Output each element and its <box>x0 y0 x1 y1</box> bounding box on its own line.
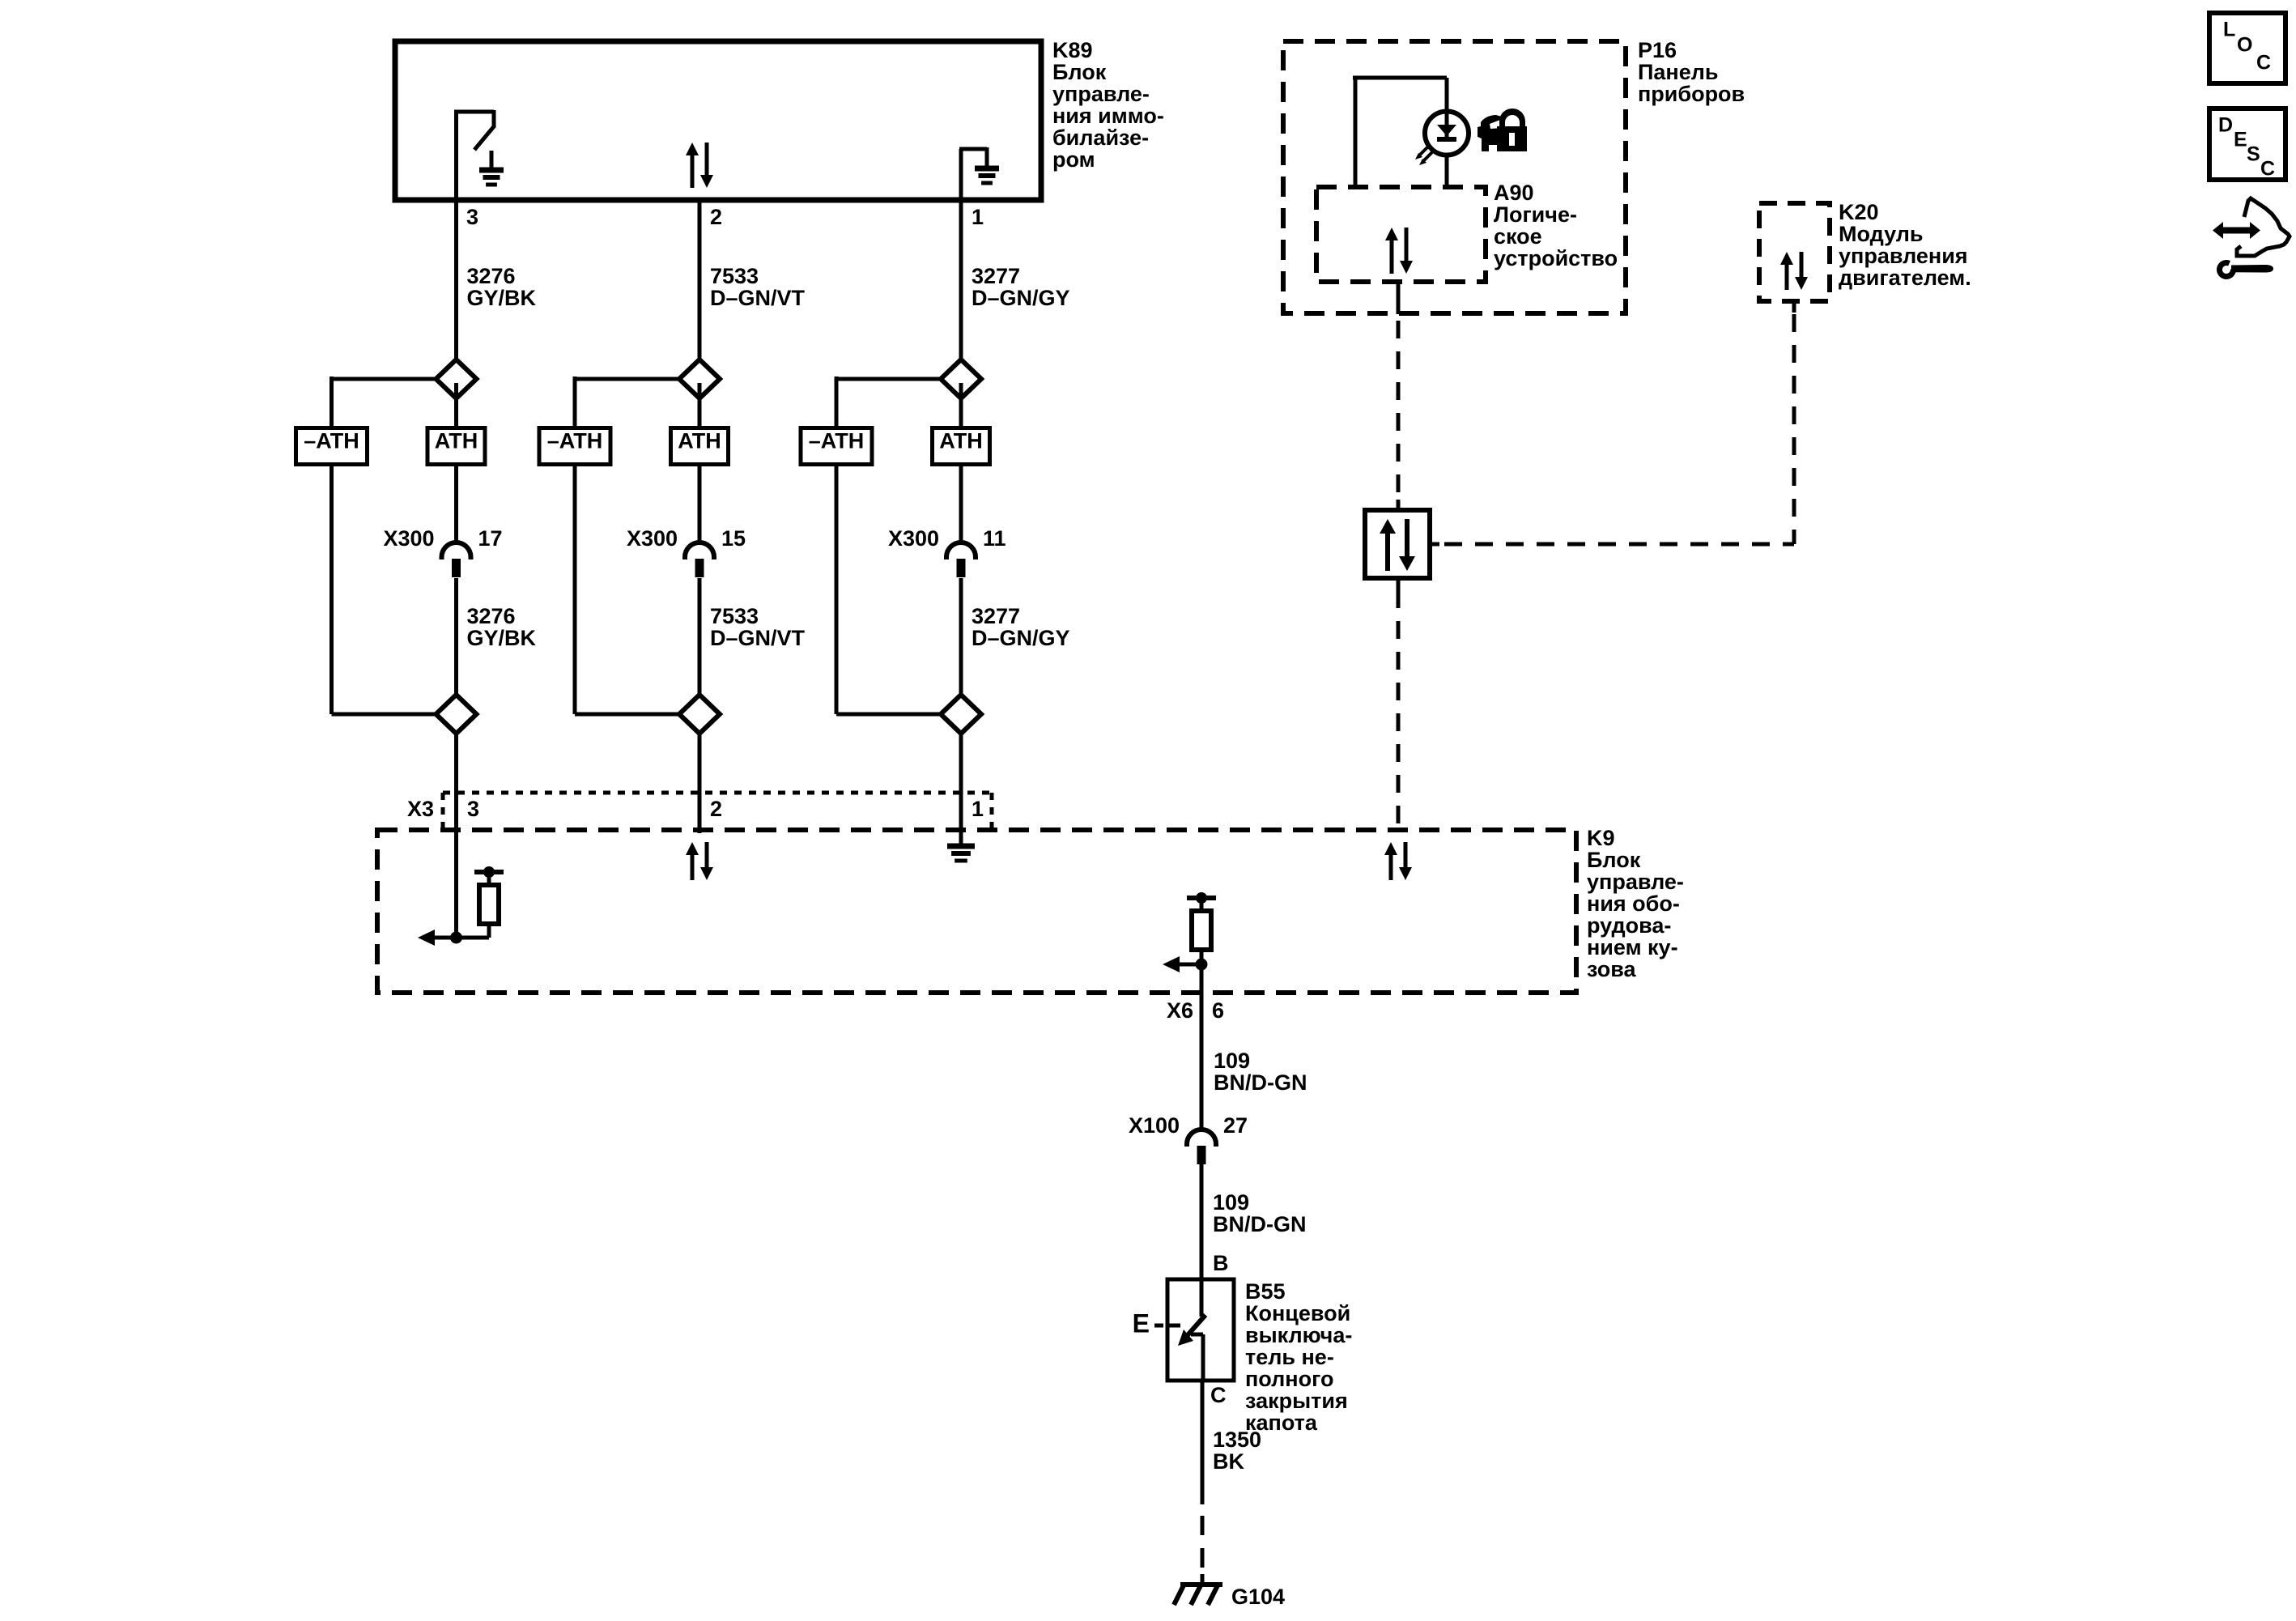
ground hook inside K89 (pin 1) <box>959 147 987 200</box>
svg-text:109: 109 <box>1214 1049 1250 1073</box>
body control module box K9 (dashed) <box>377 830 1576 993</box>
hood ajar switch box B55 <box>1167 1279 1234 1381</box>
junction dot (column 1) <box>450 932 462 944</box>
svg-text:7533: 7533 <box>710 604 759 628</box>
serial data arrows inside K9 (gateway line) <box>1384 842 1412 880</box>
svg-text:полного: полного <box>1245 1367 1333 1391</box>
svg-text:S: S <box>2247 143 2260 166</box>
svg-text:Блок: Блок <box>1587 848 1641 872</box>
svg-text:6: 6 <box>1212 998 1224 1023</box>
svg-text:Логиче-: Логиче- <box>1494 202 1577 227</box>
pull-up resistor inside K9 (column 1) <box>474 866 504 924</box>
wire from splice to K9 pin 1 (column 3) <box>959 734 963 846</box>
svg-text:билайзе-: билайзе- <box>1052 126 1149 150</box>
switch contact inside B55 <box>1178 1279 1205 1381</box>
svg-text:C: C <box>2260 158 2275 181</box>
svg-text:управления: управления <box>1839 244 1968 268</box>
car with lock security icon <box>1478 108 1527 151</box>
svg-text:11: 11 <box>983 526 1006 551</box>
connector X300 pin 15 (column 2) <box>685 542 714 577</box>
switch inside K89 (pin 3) <box>454 110 495 200</box>
splice diamond upper (column 2) <box>679 360 720 398</box>
LED security indicator <box>1425 112 1469 155</box>
svg-text:X100: X100 <box>1129 1113 1180 1138</box>
svg-text:3277: 3277 <box>972 264 1020 288</box>
svg-text:закрытия: закрытия <box>1245 1389 1348 1413</box>
branch wire to –ATH (column 1) <box>332 377 436 381</box>
svg-text:K20: K20 <box>1839 200 1879 224</box>
inline label box ATH (column 1) <box>427 428 485 465</box>
svg-text:выключа-: выключа- <box>1245 1323 1352 1347</box>
svg-text:GY/BK: GY/BK <box>467 286 537 310</box>
splice diamond upper (column 3) <box>941 360 981 398</box>
svg-text:7533: 7533 <box>710 264 759 288</box>
svg-text:X300: X300 <box>627 526 678 551</box>
connector X100 pin 27 <box>1187 1130 1216 1164</box>
svg-text:E: E <box>2234 129 2247 151</box>
wire from ATH to connector X300 (column 3) <box>959 465 963 544</box>
splice diamond lower (column 1) <box>436 695 477 734</box>
svg-text:–ATH: –ATH <box>809 429 865 453</box>
wire 109 BN/D-GN from K9 X6 to X100 <box>1200 993 1204 1130</box>
wire through ATH (column 3) <box>959 383 963 428</box>
svg-text:3: 3 <box>466 205 478 229</box>
svg-text:ское: ское <box>1494 224 1542 249</box>
svg-text:15: 15 <box>721 526 746 551</box>
connector X3 dotted band <box>443 791 992 795</box>
dashed serial data wire gateway to K20 <box>1444 542 1794 547</box>
svg-text:3276: 3276 <box>467 264 516 288</box>
svg-text:–ATH: –ATH <box>304 429 359 453</box>
branch wire to –ATH (column 2) <box>575 377 679 381</box>
inline label box –ATH (column 1) <box>296 428 368 465</box>
svg-text:ния иммо-: ния иммо- <box>1052 104 1164 128</box>
wire from splice to K9 pin 2 (column 2) <box>698 734 702 833</box>
svg-text:–ATH: –ATH <box>547 429 603 453</box>
connector X300 pin 17 (column 1) <box>442 542 471 577</box>
svg-text:ATH: ATH <box>678 429 721 453</box>
DESC hyperlink icon <box>2209 108 2285 181</box>
bidirectional arrows inside gateway box <box>1380 519 1415 571</box>
chassis ground G104 <box>1174 1585 1222 1605</box>
bidirectional signal arrows inside K89 (pin 2) <box>686 143 713 188</box>
svg-text:X3: X3 <box>407 797 434 821</box>
svg-text:2: 2 <box>710 797 722 821</box>
svg-text:BK: BK <box>1213 1449 1244 1474</box>
svg-text:ATH: ATH <box>939 429 983 453</box>
wire from splice to K9 internals (column 1) <box>454 734 458 938</box>
svg-text:GY/BK: GY/BK <box>467 626 537 650</box>
svg-text:D–GN/GY: D–GN/GY <box>972 626 1070 650</box>
dashed serial data wire gateway to K9 <box>1397 590 1401 830</box>
svg-text:D–GN/VT: D–GN/VT <box>710 626 806 650</box>
dashed serial data wire A90 to gateway <box>1397 321 1401 501</box>
svg-text:B: B <box>1213 1251 1229 1275</box>
ECU box K89 (immobilizer control unit) <box>395 41 1041 200</box>
logic device box A90 (dashed) <box>1316 187 1486 282</box>
svg-text:17: 17 <box>478 526 503 551</box>
svg-text:3276: 3276 <box>467 604 516 628</box>
svg-text:1: 1 <box>972 205 984 229</box>
svg-text:3: 3 <box>467 797 479 821</box>
svg-text:B55: B55 <box>1245 1279 1286 1304</box>
remove/install panel icon with arrows and wrench <box>2213 198 2290 279</box>
svg-text:1350: 1350 <box>1213 1427 1261 1452</box>
LED indicator circuit wires inside P16 <box>1353 78 1447 187</box>
svg-text:P16: P16 <box>1638 38 1677 62</box>
ground symbol inside K9 (pin 1 of X3) <box>947 846 975 861</box>
svg-text:ATH: ATH <box>435 429 478 453</box>
svg-text:устройство: устройство <box>1494 246 1618 270</box>
wire 3277 from K89 pin to splice (column 3) <box>959 200 963 360</box>
connector X300 pin 11 (column 3) <box>946 542 976 577</box>
svg-text:ния обо-: ния обо- <box>1587 891 1680 916</box>
svg-text:C: C <box>2256 52 2271 74</box>
svg-text:D: D <box>2218 114 2233 137</box>
bidirectional signal arrows inside A90 <box>1385 228 1413 274</box>
wire below X300 (column 3) <box>959 578 963 695</box>
instrument panel box P16 (dashed) <box>1283 41 1626 313</box>
svg-text:BN/D-GN: BN/D-GN <box>1213 1212 1307 1236</box>
svg-text:A90: A90 <box>1494 181 1534 205</box>
svg-text:C: C <box>1210 1383 1227 1407</box>
wire from A90 to gateway (solid part) <box>1397 282 1401 314</box>
svg-text:X300: X300 <box>888 526 939 551</box>
LOC hyperlink icon <box>2209 13 2285 83</box>
–ATH branch return wire (column 2) <box>573 465 577 715</box>
wire through ATH (column 1) <box>454 383 458 428</box>
wire from resistor to X6 junction <box>1200 950 1204 993</box>
splice diamond upper (column 1) <box>436 360 477 398</box>
LED light arrows <box>1415 147 1432 165</box>
splice diamond lower (column 2) <box>679 695 720 734</box>
dashed wire to ground G104 <box>1201 1516 1205 1535</box>
svg-text:приборов: приборов <box>1638 82 1745 106</box>
svg-text:Концевой: Концевой <box>1245 1301 1350 1325</box>
inline label box ATH (column 3) <box>933 428 990 465</box>
svg-text:27: 27 <box>1223 1113 1248 1138</box>
svg-text:X6: X6 <box>1167 998 1193 1023</box>
svg-text:D–GN/GY: D–GN/GY <box>972 286 1070 310</box>
svg-text:управле-: управле- <box>1587 870 1684 894</box>
wire below X300 (column 2) <box>698 578 702 695</box>
pull-up resistor inside K9 (hood switch input) <box>1187 892 1216 950</box>
stub below K20 <box>1792 301 1796 313</box>
svg-text:K89: K89 <box>1052 38 1093 62</box>
inline label box ATH (column 2) <box>671 428 729 465</box>
svg-text:тель не-: тель не- <box>1245 1345 1334 1369</box>
branch wire to –ATH (column 3) <box>836 377 941 381</box>
svg-text:нием ку-: нием ку- <box>1587 935 1678 959</box>
inline label box –ATH (column 3) <box>801 428 872 465</box>
bidirectional signal arrows inside K9 (pin 2 of X3) <box>686 842 713 880</box>
wire from ATH to connector X300 (column 1) <box>454 465 458 544</box>
dashed serial data wire below K20 <box>1792 314 1796 544</box>
ground symbol inside K89 near pin 3 <box>490 151 494 170</box>
svg-text:Модуль: Модуль <box>1839 222 1924 246</box>
wire 3276 from K89 pin to splice (column 1) <box>454 200 458 360</box>
–ATH branch return wire (column 1) <box>330 465 334 715</box>
bidirectional signal arrows inside K20 <box>1780 252 1808 290</box>
svg-text:D–GN/VT: D–GN/VT <box>710 286 806 310</box>
internal signal arrow (hood switch input) <box>1163 956 1180 972</box>
actuation dashes of B55 <box>1154 1324 1163 1328</box>
engine control module box K20 (dashed) <box>1759 203 1830 301</box>
svg-text:рудова-: рудова- <box>1587 913 1671 938</box>
svg-text:X300: X300 <box>383 526 434 551</box>
ground symbol inside K89 near pin 1 <box>975 168 999 183</box>
svg-text:3277: 3277 <box>972 604 1020 628</box>
wire from resistor to junction (column 1) <box>487 923 491 938</box>
svg-text:управле-: управле- <box>1052 82 1150 106</box>
svg-text:G104: G104 <box>1231 1585 1285 1609</box>
svg-text:E: E <box>1133 1309 1150 1338</box>
wire 1350 BK from B55 pin C <box>1201 1381 1205 1504</box>
svg-text:двигателем.: двигателем. <box>1839 266 1971 290</box>
svg-text:зова: зова <box>1587 957 1636 981</box>
svg-text:L: L <box>2223 19 2235 41</box>
svg-text:ром: ром <box>1052 147 1095 172</box>
junction dot (hood switch input) <box>1196 959 1208 971</box>
serial data gateway box <box>1365 500 1439 590</box>
svg-text:O: O <box>2237 34 2252 57</box>
wire below X300 (column 1) <box>454 578 458 695</box>
splice diamond lower (column 3) <box>941 695 981 734</box>
inline label box –ATH (column 2) <box>539 428 610 465</box>
svg-text:109: 109 <box>1213 1190 1249 1215</box>
wire from ATH to connector X300 (column 2) <box>698 465 702 544</box>
svg-text:K9: K9 <box>1587 826 1615 850</box>
svg-text:Панель: Панель <box>1638 60 1719 84</box>
wire 7533 from K89 pin to splice (column 2) <box>698 200 702 360</box>
svg-text:BN/D-GN: BN/D-GN <box>1214 1070 1307 1095</box>
svg-text:1: 1 <box>972 797 984 821</box>
svg-text:2: 2 <box>710 205 722 229</box>
wire through ATH (column 2) <box>698 383 702 428</box>
–ATH branch return wire (column 3) <box>835 465 839 715</box>
svg-text:Блок: Блок <box>1052 60 1107 84</box>
internal signal arrow (column 1) <box>418 930 435 946</box>
wire 109 BN/D-GN from X100 to B55 <box>1200 1164 1204 1279</box>
